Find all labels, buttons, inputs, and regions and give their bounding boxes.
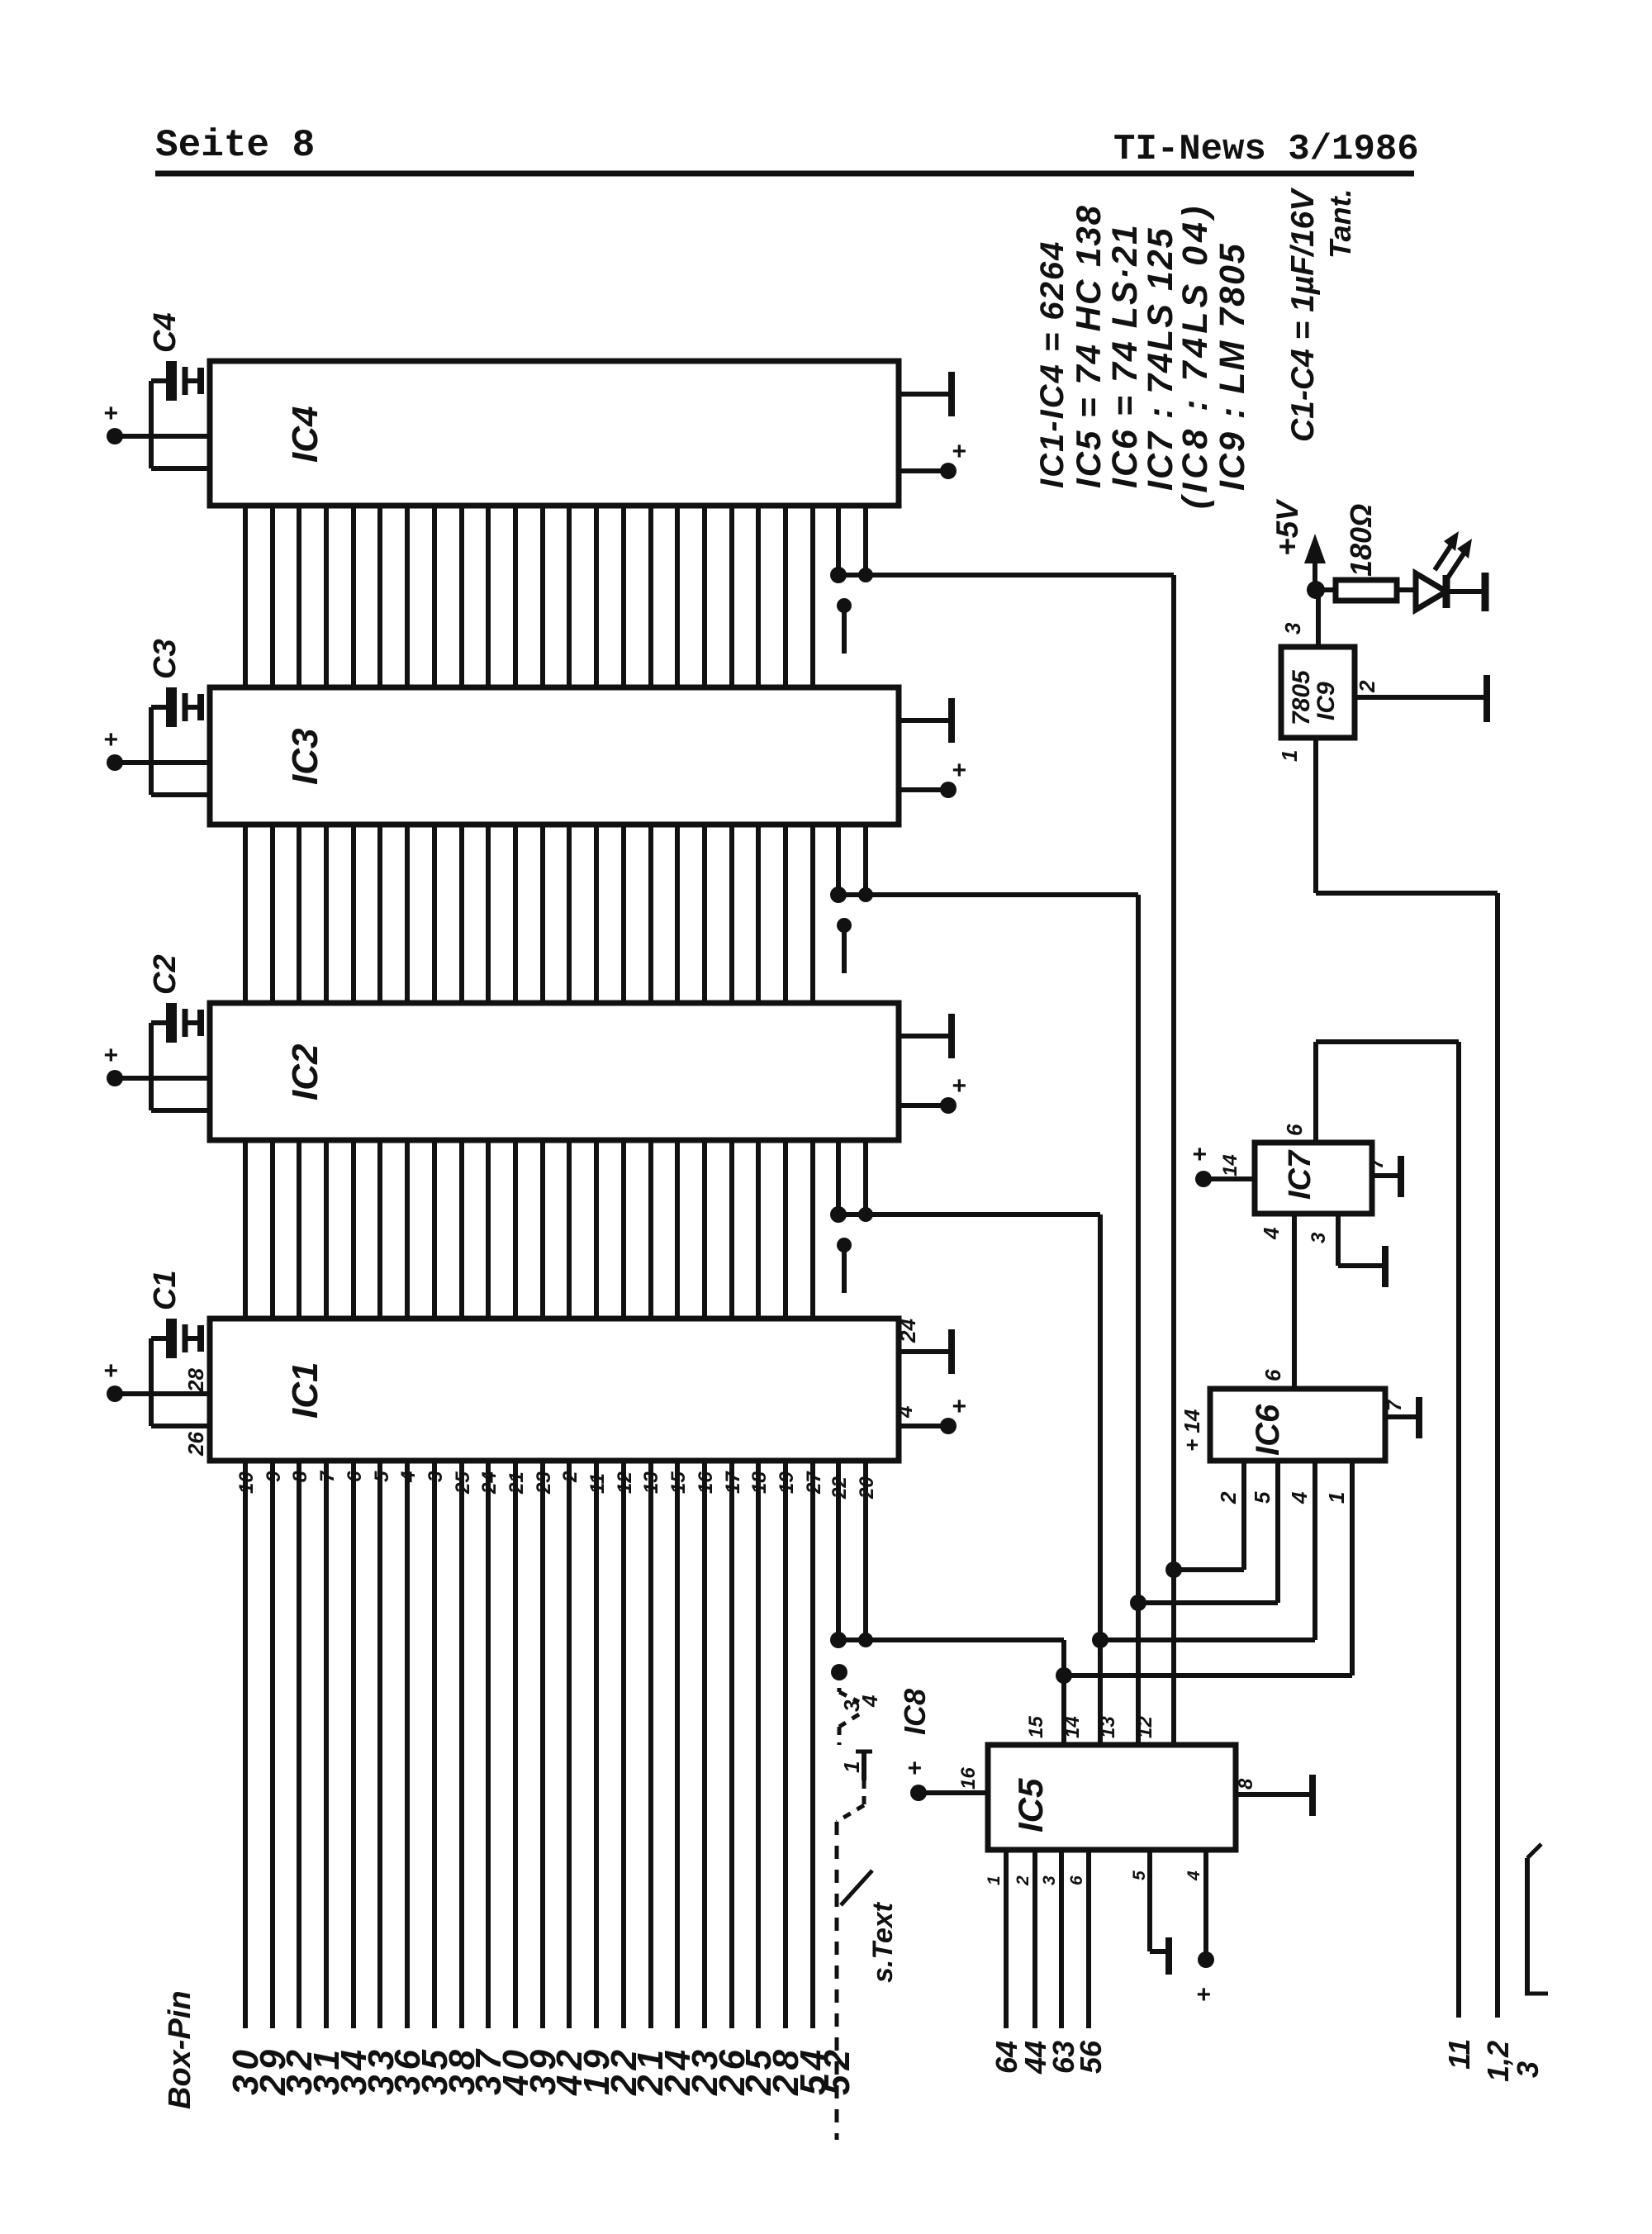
rail from IC9 pin1 down to box connector 1,2 [1495,893,1500,2018]
svg-text:6: 6 [1282,1124,1307,1136]
bus extra wire (select line A) in gap 2 [836,825,841,895]
wire IC7 pin 3 to ground [1336,1214,1341,1266]
wire capacitor to ground [185,705,201,710]
voltage regulator IC9 7805 [1281,647,1355,738]
svg-text:15: 15 [667,1471,690,1494]
svg-text:IC9 : LM 7805: IC9 : LM 7805 [1213,242,1252,491]
wire IC6 pin2 to IC5 pin rail [1174,1567,1244,1572]
ground symbol below IC7 [1382,1246,1389,1287]
ground bar for C3 [197,694,204,720]
svg-text:27: 27 [803,1471,825,1495]
wire capacitor to ground [185,1020,201,1025]
wire branch up to capacitor C4 [149,381,154,436]
svg-text:4: 4 [892,1405,917,1419]
wire from supply dot to IC1 pin 28 [115,1391,210,1396]
svg-text:12: 12 [1134,1716,1156,1738]
wire branch down to IC4 pin 26 [149,436,154,468]
svg-text:+: + [907,1755,922,1782]
svg-text:9: 9 [263,1471,285,1482]
node +5V dot below IC5 [1198,1951,1214,1968]
wire IC2 to +5V dot right [899,1103,948,1108]
wire from supply dot to IC3 pin 28 [115,760,210,765]
svg-text:20: 20 [856,1476,878,1500]
svg-text:1,2: 1,2 [1481,2041,1515,2082]
AND gate IC6 74LS21 [1210,1389,1385,1461]
svg-text:4: 4 [1287,1491,1312,1504]
junction dot rail/IC6 pin1 net [1056,1667,1072,1684]
wire resistor to LED [1397,587,1416,592]
svg-text:4: 4 [857,1695,882,1708]
wire capacitor to ground [185,378,201,383]
junction dot gap 1 [830,567,847,583]
capacitor C2 [166,1003,177,1043]
svg-text:IC9: IC9 [1313,682,1340,720]
junction dot gap 2 [830,886,847,903]
svg-text:28: 28 [183,1368,208,1393]
svg-text:+5V: +5V [1270,498,1304,556]
svg-text:5: 5 [1130,1870,1149,1880]
wire stub marker (lollipop) gap 1 [842,606,847,654]
wire IC3 pin 14 to ground [899,718,952,723]
svg-text:Box-Pin: Box-Pin [163,1990,197,2109]
svg-text:3: 3 [425,1471,447,1482]
svg-text:25: 25 [452,1471,474,1495]
bus wires between IC4/IC3/IC2/IC1 (22 lines) [243,506,248,687]
svg-text:180Ω: 180Ω [1344,504,1378,577]
svg-text:IC5: IC5 [1011,1778,1050,1832]
svg-text:7805: 7805 [1288,669,1315,725]
svg-text:16: 16 [695,1471,717,1494]
svg-text:7: 7 [1365,1157,1388,1169]
junction dot IC6 pin5 net [1130,1595,1146,1611]
svg-text:1: 1 [985,1875,1004,1885]
wire branch down to IC1 pin 26 [149,1394,154,1426]
svg-text:C4: C4 [148,312,183,353]
svg-text:+: + [952,438,966,465]
rail from gap1 down to IC6 pin2 net [1171,575,1176,1570]
svg-text:Tant.: Tant. [1323,188,1357,259]
wire IC3 to +5V dot right [899,787,948,792]
svg-text:+: + [1196,1981,1211,2008]
ground symbol right of IC7 [1398,1156,1404,1197]
svg-text:7: 7 [316,1470,339,1482]
decoder IC5 74HC138 [988,1745,1236,1850]
svg-text:3: 3 [1280,622,1305,635]
svg-text:19: 19 [776,1471,798,1494]
wire IC6 pin 6 to IC7 pin 4 [1292,1214,1297,1389]
svg-text:IC7: IC7 [1283,1149,1317,1200]
svg-text:IC6: IC6 [1250,1404,1286,1456]
svg-text:8: 8 [1235,1778,1257,1790]
+5V arrow [1313,549,1317,590]
RAM chip IC1 6264 [210,1319,899,1461]
LED light arrows [1435,541,1454,570]
wire IC5 pin 5 to ground [1147,1850,1152,1951]
wire IC9 pin 3 up to +5V node [1316,590,1321,647]
ground symbol right of IC9 [1483,675,1490,722]
svg-text:24: 24 [895,1319,920,1343]
svg-text:IC6 = 74 LS·21: IC6 = 74 LS·21 [1105,223,1145,488]
svg-text:3: 3 [1040,1875,1059,1885]
wire IC5 pin 6 to box connector [1086,1850,1091,2028]
svg-text:+: + [103,1357,118,1385]
wire IC6 pin 7 to ground [1385,1414,1419,1419]
svg-text:C3: C3 [148,639,183,679]
bus extra wire (select line B) in gap 1 [863,506,868,575]
ground symbol right of IC5 [1309,1775,1316,1816]
svg-text:1: 1 [1324,1492,1349,1504]
svg-text:3: 3 [1308,1232,1330,1243]
ground symbol right of IC6 [1416,1397,1422,1438]
node +5V dot right of IC4 [940,463,957,479]
wire IC4 to +5V dot right [899,468,948,473]
svg-text:IC8: IC8 [898,1689,932,1735]
junction dot gap 3 [830,1206,847,1223]
ground bar for C1 [197,1325,204,1352]
svg-text:52: 52 [817,2045,857,2095]
capacitor C1 [166,1319,177,1358]
wire IC6 pin4 to IC5 pin rail [1100,1637,1315,1642]
inverter IC8 (dashed) [831,1664,847,1680]
node +5V supply dot left of IC2 [107,1070,123,1086]
wire capacitor to ground [185,1336,201,1341]
svg-text:C2: C2 [148,954,183,995]
svg-text:4: 4 [397,1471,420,1483]
svg-text:Seite 8: Seite 8 [155,124,315,167]
svg-text:16: 16 [957,1767,980,1790]
RAM chip IC3 6264 [210,687,899,825]
svg-text:+: + [103,1042,118,1069]
wire node to resistor [1316,587,1336,592]
svg-text:6: 6 [1067,1875,1086,1885]
wire IC5 pin 1 to box connector [1004,1850,1009,2028]
wire IC8 output (solid) [856,1750,872,1754]
wire IC9 pin 1 down and right [1313,738,1318,893]
svg-text:IC3: IC3 [285,729,325,785]
RAM chip IC2 6264 [210,1003,899,1140]
header underline [155,171,1414,177]
wire branch up to capacitor C1 [149,1338,154,1394]
svg-text:+: + [952,1072,966,1100]
wire from supply dot to IC4 pin 28 [115,434,210,439]
svg-text:1: 1 [1277,750,1302,762]
ground symbol right of IC3 [948,698,955,743]
svg-text:IC1-IC4 = 6264: IC1-IC4 = 6264 [1034,240,1070,488]
svg-text:+: + [103,726,118,753]
node +5V dot right of IC2 [940,1097,957,1114]
wire IC5 pin 4 to +5V dot [1203,1850,1208,1960]
svg-text:6: 6 [344,1471,366,1482]
junction dot +5V node [1307,581,1325,599]
wire IC7 pin 6 up and right to rail [1313,1042,1318,1143]
node +5V dot right of IC1 [940,1418,957,1434]
svg-text:IC1: IC1 [285,1362,325,1419]
ground symbol right of IC4 [948,372,955,416]
wire gap 3 select lines to right rail [838,1212,1100,1217]
svg-text:5: 5 [1250,1491,1275,1504]
wire branch down to IC2 pin 26 [149,1078,154,1110]
svg-text:4: 4 [1184,1870,1203,1881]
svg-text:11: 11 [586,1473,609,1494]
bus wires below IC1 down to Box-Pin labels [243,1461,248,2028]
buffer IC7 74LS125 [1255,1143,1372,1214]
wire stub marker (lollipop) gap 3 [842,1245,847,1293]
svg-text:1: 1 [839,1761,864,1773]
wire branch up to capacitor C3 [149,707,154,763]
wire IC2 pin 14 to ground [899,1034,952,1039]
wire IC5 pin 2 to box connector [1032,1850,1037,2028]
svg-text:17: 17 [722,1471,744,1494]
wire gap 2 select lines to right rail [838,892,1138,897]
svg-text:+: + [103,400,118,427]
LED diode [1413,573,1419,610]
svg-text:7: 7 [1384,1399,1406,1411]
svg-text:13: 13 [640,1471,662,1494]
svg-text:2: 2 [1014,1875,1032,1886]
ground bar for C2 [197,1010,204,1036]
wire IC6 pin5 to IC5 pin rail [1138,1600,1278,1605]
wire gap 1 select lines to right rail [838,573,1174,578]
wire IC1 pin 14 to ground [899,1349,952,1354]
ground symbol below IC5 [1165,1937,1172,1975]
svg-text:13: 13 [1097,1716,1119,1738]
ground bar for C4 [197,368,204,394]
wire stub marker (lollipop) gap 2 [842,925,847,973]
dashed wire down to box pin 52 [835,1822,839,2140]
stub wire for connector 3 [1525,1858,1530,1994]
svg-text:2: 2 [1355,680,1379,693]
junction dot IC6 pin4 net [1092,1632,1108,1648]
resistor 180 ohm [1336,580,1397,601]
svg-text:2: 2 [1216,1491,1241,1504]
bus extra wire (select line B) in gap 3 [863,1140,868,1214]
rail from IC7 pin6 down to box connector 11 [1456,1042,1461,2018]
RAM chip IC4 6264 [210,361,899,506]
node +5V dot right of IC3 [940,782,957,798]
svg-text:26: 26 [183,1432,208,1457]
wire IC5 pin 3 to box connector [1059,1850,1064,2028]
svg-text:IC7 : 74LS 125: IC7 : 74LS 125 [1141,226,1180,491]
svg-text:6: 6 [1260,1369,1285,1381]
svg-text:3: 3 [1511,2061,1545,2078]
svg-text:+: + [1192,1141,1207,1168]
wire +5V to IC7 pin 14 [1195,1171,1212,1187]
svg-text:s.Text: s.Text [867,1901,899,1983]
rail from gap3 down to IC6 pin4 net [1098,1214,1103,1640]
capacitor C4 [166,361,177,401]
ground symbol right of IC2 [948,1014,955,1058]
bus extra wire (select line B) in gap 2 [863,825,868,895]
wire IC1 to +5V dot right [899,1424,948,1428]
svg-text:23: 23 [533,1471,555,1495]
pointer line s.Text [841,1870,872,1905]
svg-text:(IC8 : 74LS 04): (IC8 : 74LS 04) [1175,202,1215,509]
wire IC9 pin 2 to ground [1355,695,1487,700]
wire IC6 pin1 to IC5 pin rail [1064,1673,1352,1678]
svg-text:24: 24 [478,1471,501,1495]
svg-text:10: 10 [235,1471,258,1494]
wire IC5 pin 8 to ground [1236,1792,1313,1797]
svg-text:18: 18 [748,1471,771,1494]
node +5V supply dot left of IC3 [107,754,123,771]
wire from supply dot to IC2 pin 28 [115,1076,210,1081]
svg-text:8: 8 [289,1471,311,1482]
svg-text:IC5 = 74 HC 138: IC5 = 74 HC 138 [1069,204,1108,488]
wire branch down to IC3 pin 26 [149,763,154,795]
ground symbol right of IC1 [948,1329,955,1374]
svg-text:IC4: IC4 [285,406,325,463]
wire select bus to IC5 rail [838,1637,1064,1642]
svg-text:21: 21 [506,1471,528,1495]
svg-text:+: + [952,1393,966,1420]
svg-text:15: 15 [1025,1716,1047,1738]
wire LED to ground [1446,589,1485,594]
wire branch up to capacitor C2 [149,1023,154,1078]
svg-text:+ 14: + 14 [1180,1409,1204,1452]
bus extra wire (select line A) in gap 3 [836,1140,841,1214]
svg-text:5: 5 [371,1471,393,1482]
node +5V supply dot left of IC4 [107,428,123,444]
svg-text:+: + [952,757,966,784]
bus extra wires below IC1 [836,1461,841,1640]
capacitor C3 [166,687,177,727]
svg-text:12: 12 [614,1471,636,1494]
svg-text:14: 14 [1061,1716,1084,1738]
rails down to IC5 top pins [1098,1640,1103,1745]
svg-text:C1-C4 = 1µF/16V: C1-C4 = 1µF/16V [1285,188,1321,442]
svg-text:2: 2 [559,1471,582,1483]
svg-text:56: 56 [1074,2040,1108,2074]
svg-text:C1: C1 [148,1270,183,1310]
wire +5V to IC5 pin 16 [910,1785,927,1801]
svg-text:TI-News 3/1986: TI-News 3/1986 [1113,129,1419,170]
junction dot IC6 pin2 net [1165,1561,1182,1578]
bus extra wire (select line A) in gap 1 [836,506,841,575]
svg-text:14: 14 [1219,1154,1241,1176]
wire IC7 pin 7 to ground [1372,1173,1401,1178]
ground symbol right of LED [1482,573,1489,611]
wire IC4 pin 14 to ground [899,392,952,397]
rail from gap2 down to IC6 pin5 net [1136,895,1141,1603]
svg-text:11: 11 [1442,2039,1476,2070]
node +5V supply dot left of IC1 [107,1386,123,1402]
svg-text:22: 22 [828,1476,851,1500]
svg-text:IC2: IC2 [285,1043,325,1100]
svg-text:4: 4 [1259,1227,1284,1240]
junction dots on select bus below IC1 [830,1632,847,1648]
